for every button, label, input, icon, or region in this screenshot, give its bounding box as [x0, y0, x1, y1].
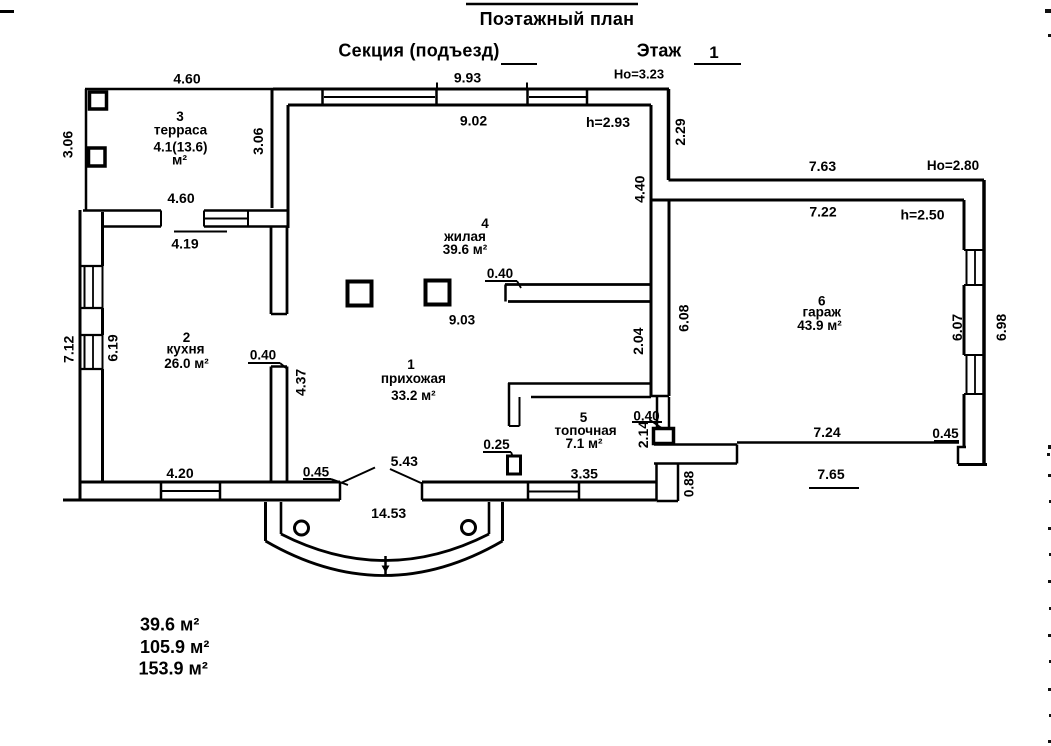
svg-text:0.88: 0.88	[682, 470, 697, 497]
svg-text:h=2.93: h=2.93	[586, 114, 630, 130]
svg-text:кухня: кухня	[167, 342, 205, 357]
svg-text:9.03: 9.03	[449, 313, 476, 328]
svg-text:9.93: 9.93	[454, 70, 481, 86]
svg-text:26.0 м²: 26.0 м²	[164, 356, 209, 371]
svg-text:9.02: 9.02	[460, 113, 487, 129]
svg-text:7.12: 7.12	[61, 335, 77, 362]
svg-text:6.08: 6.08	[676, 304, 692, 331]
svg-text:7.1 м²: 7.1 м²	[566, 436, 604, 451]
svg-text:4.40: 4.40	[632, 175, 648, 202]
svg-text:33.2 м²: 33.2 м²	[391, 388, 436, 403]
svg-text:14.53: 14.53	[371, 505, 406, 521]
svg-text:4.37: 4.37	[293, 369, 309, 396]
svg-text:39.6 м²: 39.6 м²	[140, 615, 199, 635]
svg-text:1: 1	[709, 43, 718, 62]
svg-text:6.98: 6.98	[993, 314, 1009, 341]
svg-text:105.9 м²: 105.9 м²	[140, 637, 209, 657]
svg-text:4.19: 4.19	[171, 236, 198, 252]
svg-text:Секция (подъезд): Секция (подъезд)	[338, 41, 499, 61]
svg-text:0.45: 0.45	[303, 465, 330, 480]
svg-text:3.06: 3.06	[60, 131, 76, 158]
svg-text:h=2.50: h=2.50	[901, 207, 945, 223]
svg-text:7.63: 7.63	[809, 158, 836, 174]
svg-text:0.25: 0.25	[483, 437, 510, 452]
svg-text:4.60: 4.60	[173, 71, 200, 87]
svg-text:Этаж: Этаж	[637, 41, 682, 61]
svg-text:Поэтажный план: Поэтажный план	[480, 9, 635, 29]
svg-text:2.14: 2.14	[635, 421, 651, 448]
svg-text:7.65: 7.65	[817, 466, 844, 482]
svg-text:4.20: 4.20	[166, 465, 193, 481]
svg-text:3.35: 3.35	[571, 466, 598, 482]
svg-text:2.04: 2.04	[630, 327, 646, 354]
svg-text:43.9 м²: 43.9 м²	[797, 318, 842, 333]
svg-text:Но=2.80: Но=2.80	[927, 158, 979, 173]
svg-text:7.22: 7.22	[809, 204, 836, 220]
svg-text:4.60: 4.60	[167, 190, 194, 206]
svg-text:прихожая: прихожая	[381, 371, 446, 386]
svg-text:5.43: 5.43	[391, 453, 418, 469]
svg-text:м²: м²	[172, 152, 187, 168]
svg-text:3.06: 3.06	[250, 127, 266, 154]
svg-text:0.40: 0.40	[487, 266, 513, 281]
svg-text:6.19: 6.19	[104, 334, 120, 361]
svg-text:0.45: 0.45	[932, 426, 959, 441]
svg-text:153.9 м²: 153.9 м²	[139, 659, 208, 679]
svg-text:Но=3.23: Но=3.23	[614, 67, 664, 82]
svg-text:6.07: 6.07	[949, 314, 965, 341]
svg-text:39.6 м²: 39.6 м²	[443, 242, 488, 257]
svg-text:7.24: 7.24	[813, 424, 840, 440]
svg-text:0.40: 0.40	[250, 348, 276, 363]
svg-text:терраса: терраса	[154, 123, 208, 138]
svg-text:2.29: 2.29	[672, 118, 688, 145]
svg-text:1: 1	[407, 357, 415, 372]
